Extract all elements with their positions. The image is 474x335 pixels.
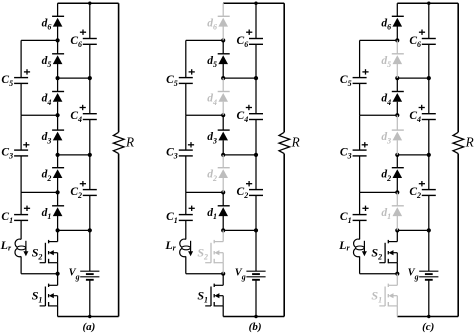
svg-text:R: R xyxy=(125,134,134,149)
svg-text:(a): (a) xyxy=(82,321,95,333)
svg-text:(c): (c) xyxy=(422,321,434,333)
svg-text:R: R xyxy=(291,134,300,149)
svg-text:(b): (b) xyxy=(249,321,262,333)
svg-text:R: R xyxy=(465,134,474,149)
